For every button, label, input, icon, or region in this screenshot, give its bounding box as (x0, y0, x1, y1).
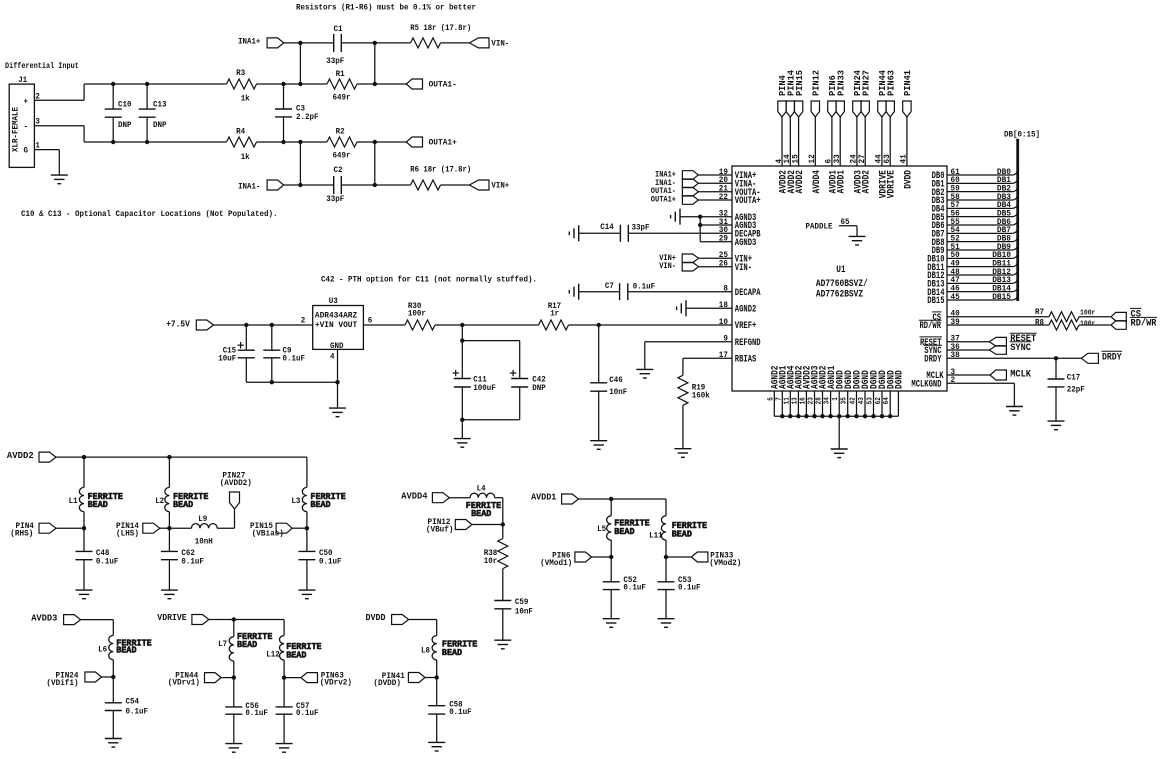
paddle pin 65 (806, 218, 858, 236)
node C2n (373, 140, 377, 144)
wire AGND2 pin18 (686, 307, 732, 309)
wire L12 to PIN63 (284, 677, 301, 679)
wire SYNC (947, 349, 989, 351)
svg-text:PIN63: PIN63 (885, 70, 896, 96)
capacitor C13 (139, 84, 167, 142)
svg-text:(AVDD2): (AVDD2) (220, 478, 252, 488)
port OUTA1- output (406, 79, 457, 89)
svg-text:1r: 1r (550, 310, 559, 319)
node L11 pin33 (664, 555, 668, 559)
svg-text:ADR434ARZ: ADR434ARZ (315, 312, 357, 321)
resistor R38 (484, 525, 508, 601)
resistor R19 (678, 375, 710, 405)
svg-text:C54: C54 (126, 697, 140, 706)
svg-text:R6 18r (17.8r): R6 18r (17.8r) (410, 165, 471, 175)
node C11 top (460, 338, 464, 342)
ground C50 (298, 590, 315, 599)
svg-text:DRDY: DRDY (924, 355, 941, 366)
wire R17 to VREF (569, 324, 733, 326)
node L8 pin41 (435, 675, 439, 679)
svg-text:VIN-: VIN- (491, 38, 509, 48)
wire DVDD to L8 (409, 620, 437, 636)
svg-text:DECAPA: DECAPA (735, 288, 761, 299)
svg-text:(LHS): (LHS) (116, 529, 139, 539)
svg-text:MCLK: MCLK (1010, 370, 1031, 381)
wire VDRIVE rail (209, 620, 284, 636)
capacitor C7 (579, 282, 732, 300)
wire C15 C9 gnd rail (246, 381, 337, 383)
capacitor C59 (494, 598, 533, 640)
U1 right DB pin labels (927, 167, 959, 307)
ground C48 (76, 590, 93, 599)
node C10 bottom (111, 140, 115, 144)
svg-text:+7.5V: +7.5V (166, 319, 190, 330)
ground C52 (603, 619, 620, 628)
port PIN63 VDrv2 (301, 671, 352, 688)
inductor L7 ferrite bead (218, 620, 273, 678)
capacitor C58 (428, 678, 472, 743)
node A1 (298, 41, 302, 45)
svg-text:L8: L8 (421, 646, 430, 655)
svg-text:BEAD: BEAD (173, 499, 193, 510)
wire RESET (947, 341, 989, 343)
port INA1- to U1 (655, 179, 698, 188)
svg-text:INA1-: INA1- (238, 181, 260, 191)
svg-text:1: 1 (832, 397, 840, 401)
svg-text:C7: C7 (605, 282, 614, 291)
svg-text:2: 2 (301, 316, 306, 325)
wire REFGND (645, 342, 732, 370)
svg-text:OUTA1-: OUTA1- (429, 79, 457, 89)
svg-text:AVDD2: AVDD2 (7, 450, 34, 461)
svg-text:7: 7 (775, 397, 783, 401)
svg-text:10r: 10r (484, 557, 498, 566)
svg-text:649r: 649r (333, 94, 351, 103)
wire vertical A2-B2 (374, 43, 376, 84)
svg-text:+: + (24, 97, 29, 106)
node DRDY C17 (1054, 356, 1058, 360)
resistor R3 (227, 69, 257, 104)
port AVDD3 (31, 612, 80, 624)
port PIN15 VBias (250, 521, 292, 539)
svg-text:BEAD: BEAD (442, 647, 462, 658)
svg-text:0.1uF: 0.1uF (319, 557, 342, 566)
svg-text:GND: GND (330, 342, 344, 351)
svg-text:4: 4 (330, 353, 335, 362)
capacitor C42 (510, 370, 546, 393)
capacitor C56 (225, 678, 268, 744)
svg-text:DB[0:15]: DB[0:15] (1004, 131, 1040, 140)
port OUTA1+ output (406, 137, 457, 148)
svg-text:0.1uF: 0.1uF (283, 355, 306, 364)
svg-text:VIN-: VIN- (659, 262, 676, 271)
svg-text:16: 16 (799, 397, 807, 404)
svg-text:OUTA1+: OUTA1+ (429, 138, 457, 148)
capacitor C48 (76, 528, 119, 590)
wire R4 out (257, 141, 301, 143)
svg-text:INA1+: INA1+ (238, 36, 260, 46)
node L7 pin44 (232, 675, 236, 679)
svg-text:AVDD3: AVDD3 (31, 612, 57, 623)
port +7.5V input (166, 319, 213, 331)
svg-text:(VBuf): (VBuf) (426, 525, 454, 535)
svg-text:53: 53 (867, 397, 875, 404)
wire R19 to ground (682, 405, 684, 448)
svg-text:+VIN VOUT: +VIN VOUT (315, 321, 357, 330)
svg-text:6: 6 (368, 316, 373, 325)
svg-text:U1: U1 (836, 265, 845, 276)
svg-text:BEAD: BEAD (310, 499, 330, 510)
inductor L12 ferrite bead (266, 636, 322, 678)
ground C58 (428, 742, 445, 751)
inductor L2 ferrite bead (155, 457, 208, 528)
svg-text:C10: C10 (118, 101, 132, 110)
svg-text:0.1uF: 0.1uF (245, 709, 268, 718)
wire INA1+ row (284, 42, 411, 44)
svg-text:VDRIVE: VDRIVE (887, 170, 898, 198)
port DVDD (366, 612, 409, 624)
svg-text:PIN33: PIN33 (835, 70, 846, 96)
svg-text:10nH: 10nH (195, 537, 213, 546)
svg-text:AVDD2: AVDD2 (862, 170, 873, 194)
wire U3 gnd pin4 (337, 349, 339, 408)
note C42 PTH option (321, 276, 537, 285)
ground C57 (276, 744, 293, 753)
svg-text:41: 41 (899, 154, 909, 163)
svg-text:0.1uF: 0.1uF (96, 557, 119, 566)
svg-text:R3: R3 (236, 69, 245, 78)
wires ports to U1 pins 19-22 (698, 175, 732, 200)
svg-text:R5 18r (17.8r): R5 18r (17.8r) (410, 23, 471, 33)
svg-text:35: 35 (841, 397, 849, 404)
node L5 top (609, 497, 613, 501)
svg-text:AVDD2: AVDD2 (795, 170, 806, 194)
ground C56 (225, 744, 242, 753)
svg-text:C10 & C13 - Optional Capacitor: C10 & C13 - Optional Capacitor Locations… (21, 210, 278, 219)
wire PIN14 to L2 (160, 527, 170, 529)
port PIN12 VBuf (426, 517, 472, 534)
svg-text:17: 17 (719, 350, 728, 360)
svg-text:G: G (24, 147, 29, 156)
svg-text:AD7760BSVZ/: AD7760BSVZ/ (816, 278, 868, 290)
node B2 (373, 82, 377, 86)
U1 top pin connectors (774, 70, 915, 198)
svg-text:DGND: DGND (895, 370, 906, 389)
svg-text:0.1uF: 0.1uF (678, 584, 701, 593)
port SYNC (989, 342, 1031, 355)
svg-text:9: 9 (723, 334, 728, 344)
svg-text:AVDD4: AVDD4 (812, 170, 823, 194)
svg-text:62: 62 (875, 397, 883, 404)
wire AVDD1 rail (579, 499, 666, 516)
ground C11 (454, 439, 471, 448)
wire PIN12 node (472, 524, 503, 526)
node C15 top (244, 323, 248, 327)
svg-text:R1: R1 (336, 70, 345, 79)
svg-text:MCLKGND: MCLKGND (911, 380, 941, 391)
capacitor C57 (276, 678, 319, 744)
port VDRIVE (157, 612, 209, 624)
svg-text:1k: 1k (241, 94, 250, 103)
svg-text:(VDrv1): (VDrv1) (168, 678, 200, 688)
inductor L5 ferrite bead (597, 499, 650, 557)
resistor R5 (410, 23, 471, 48)
svg-text:J1: J1 (18, 76, 27, 85)
svg-text:10uF: 10uF (218, 355, 236, 364)
svg-text:L6: L6 (98, 646, 107, 655)
wire DRDY (947, 357, 1081, 359)
capacitor C62 (161, 528, 204, 590)
wire PIN44 to L7 (221, 677, 234, 679)
port PIN27 AVDD2 (220, 471, 252, 509)
port VIN+ output (469, 180, 509, 191)
capacitor C54 (105, 677, 148, 739)
svg-text:C14: C14 (600, 223, 614, 232)
node C13 top (145, 82, 149, 86)
capacitor C46 (590, 325, 627, 441)
port PIN44 VDrv1 (168, 671, 221, 688)
svg-text:RD/WR: RD/WR (920, 320, 942, 332)
U1 pin CS RDWR labels (919, 309, 960, 333)
node C3 top (281, 82, 285, 86)
svg-text:C42 - PTH option for C11 (not: C42 - PTH option for C11 (not normally s… (321, 276, 537, 285)
U1 pin RESET SYNC DRDY labels (920, 334, 960, 366)
node L5 pin6 (609, 555, 613, 559)
connector J1 XLR-FEMALE (9, 76, 40, 167)
regulator U3 ADR434ARZ (301, 297, 373, 362)
inductor L3 ferrite bead (291, 487, 346, 528)
inductor L6 ferrite bead (98, 635, 152, 677)
port VIN+ to U1 (659, 254, 698, 263)
svg-text:L4: L4 (477, 484, 486, 493)
svg-text:649r: 649r (333, 152, 351, 161)
svg-text:L2: L2 (155, 497, 164, 506)
svg-text:PIN12: PIN12 (811, 70, 822, 96)
svg-text:REFGND: REFGND (735, 338, 761, 349)
port AVDD2 (7, 450, 56, 462)
port INA1- input (238, 180, 284, 191)
ground paddle (849, 236, 866, 245)
svg-text:L11: L11 (649, 532, 663, 541)
capacitor C2 (326, 166, 344, 204)
node L1 pin4 (82, 526, 86, 530)
node AGND3 b (698, 223, 702, 227)
resistor R8 (1035, 318, 1095, 331)
inductor L11 ferrite bead (649, 516, 707, 557)
svg-text:DRDY: DRDY (1102, 352, 1122, 363)
svg-text:AGND3: AGND3 (735, 238, 757, 249)
capacitor C15 (218, 325, 255, 382)
port RDWR out (1111, 317, 1157, 329)
ground C53 (658, 619, 675, 628)
port OUTA1- to U1 (651, 187, 699, 196)
port PIN4 RHS (10, 521, 56, 539)
wire J1 pin3 to input rail (34, 126, 226, 142)
svg-text:VDRIVE: VDRIVE (157, 612, 187, 623)
ground C59 (494, 640, 511, 649)
U1 pin MCLK labels (911, 367, 955, 391)
port MCLK (990, 370, 1031, 381)
bus DB wires and entries (947, 168, 1018, 302)
svg-text:C46: C46 (609, 376, 623, 385)
svg-text:XLR-FEMALE: XLR-FEMALE (11, 107, 20, 152)
wire RBIAS (683, 358, 732, 375)
svg-text:DNP: DNP (118, 121, 132, 130)
svg-text:5: 5 (767, 397, 775, 401)
wire INA1- row (284, 184, 411, 186)
svg-text:(VMod2): (VMod2) (709, 558, 741, 568)
capacitor C17 (1048, 358, 1085, 421)
node C10 top (111, 82, 115, 86)
svg-text:33pF: 33pF (632, 224, 650, 233)
svg-text:R7: R7 (1035, 307, 1044, 317)
node C1n (298, 140, 302, 144)
port VIN- output (469, 38, 509, 48)
svg-text:0.1uF: 0.1uF (181, 557, 204, 566)
resistor R6 (410, 165, 471, 191)
port INA1+ to U1 (655, 171, 698, 180)
svg-text:22: 22 (719, 192, 728, 202)
port VIN- to U1 (659, 262, 698, 271)
svg-text:C17: C17 (1067, 374, 1081, 383)
label Differential Input (5, 62, 79, 71)
capacitor C10 (105, 84, 132, 142)
node L2 pin14 (167, 526, 171, 530)
svg-text:10nF: 10nF (609, 388, 627, 397)
node C11 branch (460, 323, 464, 327)
svg-text:-: - (24, 123, 29, 132)
svg-text:160k: 160k (692, 392, 710, 401)
ground AGND3 sideways (671, 209, 680, 225)
svg-text:C59: C59 (515, 598, 529, 607)
node D2 (373, 183, 377, 187)
svg-text:(RHS): (RHS) (10, 529, 33, 539)
wire AVDD2 rail (56, 457, 307, 487)
svg-text:0.1uF: 0.1uF (633, 283, 656, 292)
svg-text:U3: U3 (329, 297, 338, 306)
svg-text:R8: R8 (1035, 318, 1044, 328)
svg-text:L12: L12 (266, 651, 280, 660)
capacitor C1 (326, 25, 344, 66)
node D1 (298, 183, 302, 187)
port INA1+ input (238, 36, 284, 48)
capacitor C11 (453, 370, 496, 393)
port RESET (989, 333, 1036, 346)
svg-text:DVDD: DVDD (903, 170, 914, 189)
port PIN14 LHS (116, 521, 160, 539)
svg-text:C2: C2 (334, 166, 343, 175)
svg-text:100r: 100r (1080, 320, 1095, 328)
svg-text:42: 42 (850, 397, 858, 404)
wire PIN4 to L1 (56, 527, 84, 529)
node C3 bottom (281, 140, 285, 144)
node A2 (373, 41, 377, 45)
svg-text:VREF+: VREF+ (735, 321, 757, 332)
svg-text:0.1uF: 0.1uF (449, 708, 472, 717)
svg-text:BEAD: BEAD (88, 499, 108, 510)
resistor R7 (1035, 307, 1095, 322)
wire RDWR to R8 (947, 324, 1049, 326)
wire J1 pin1 to ground (34, 150, 59, 176)
svg-text:64: 64 (883, 397, 891, 404)
svg-text:VIN-: VIN- (735, 263, 752, 274)
resistor R17 (539, 302, 569, 330)
wire PIN6 to L5 (592, 556, 612, 558)
svg-text:AGND2: AGND2 (735, 305, 757, 316)
svg-text:63: 63 (882, 154, 892, 163)
wire PIN15 to L3 (292, 527, 307, 529)
bus DB[0:15] (1004, 131, 1040, 302)
svg-text:43: 43 (858, 397, 866, 404)
svg-text:27: 27 (857, 154, 867, 163)
svg-text:33pF: 33pF (326, 57, 344, 66)
node L2 top (167, 455, 171, 459)
svg-text:22pF: 22pF (1067, 386, 1085, 395)
capacitor C52 (603, 557, 646, 619)
svg-text:(VMod1): (VMod1) (540, 558, 572, 568)
svg-text:BEAD: BEAD (471, 508, 491, 519)
svg-text:BEAD: BEAD (614, 526, 634, 537)
svg-text:26: 26 (719, 259, 728, 269)
port AVDD1 (531, 492, 579, 504)
node C9 top (270, 323, 274, 327)
wire +7.5V rail (214, 324, 313, 326)
wire PIN24 to L6 (102, 676, 114, 678)
capacitor C50 (298, 528, 341, 590)
ground AGND2 sideways (677, 300, 686, 316)
ground U3 (329, 408, 346, 417)
wire MCLKGND to ground (947, 383, 1014, 406)
wire B row (300, 83, 406, 85)
node L12 pin63 (282, 675, 286, 679)
node R38 top (501, 522, 505, 526)
wire C row (300, 141, 406, 143)
wire bottom ground bus (774, 414, 898, 449)
node gnd rail U3 (335, 380, 339, 384)
svg-text:L3: L3 (291, 497, 300, 506)
ground C7 sideways (569, 284, 578, 300)
svg-text:28: 28 (816, 397, 824, 404)
wire U3 out (363, 324, 405, 326)
U1 left pin labels (719, 167, 761, 366)
inductor L9 (169, 509, 234, 546)
svg-text:R4: R4 (236, 128, 245, 137)
svg-text:SYNC: SYNC (1010, 343, 1031, 354)
node B1 (298, 82, 302, 86)
node L3 pin15 (305, 526, 309, 530)
svg-text:L7: L7 (218, 640, 227, 649)
wire R3 out (257, 83, 301, 85)
port PIN33 VMod2 (691, 550, 741, 568)
node C13 bottom (145, 140, 149, 144)
svg-text:VIN+: VIN+ (491, 181, 509, 191)
capacitor C14 (579, 223, 732, 242)
svg-text:L9: L9 (198, 515, 207, 524)
svg-text:BEAD: BEAD (286, 649, 306, 660)
svg-text:PIN15: PIN15 (794, 70, 805, 96)
svg-text:BEAD: BEAD (116, 645, 136, 656)
svg-text:BEAD: BEAD (237, 639, 257, 650)
ground C17 (1048, 421, 1065, 430)
ground C54 (105, 739, 122, 748)
svg-text:DNP: DNP (153, 121, 167, 130)
svg-text:33: 33 (832, 154, 842, 163)
ground U1 bottom (831, 449, 848, 458)
svg-text:23: 23 (808, 397, 816, 404)
svg-text:AD7762BSVZ: AD7762BSVZ (816, 290, 863, 301)
svg-text:DB15: DB15 (992, 293, 1011, 302)
wire AGND3 pins (680, 217, 732, 242)
